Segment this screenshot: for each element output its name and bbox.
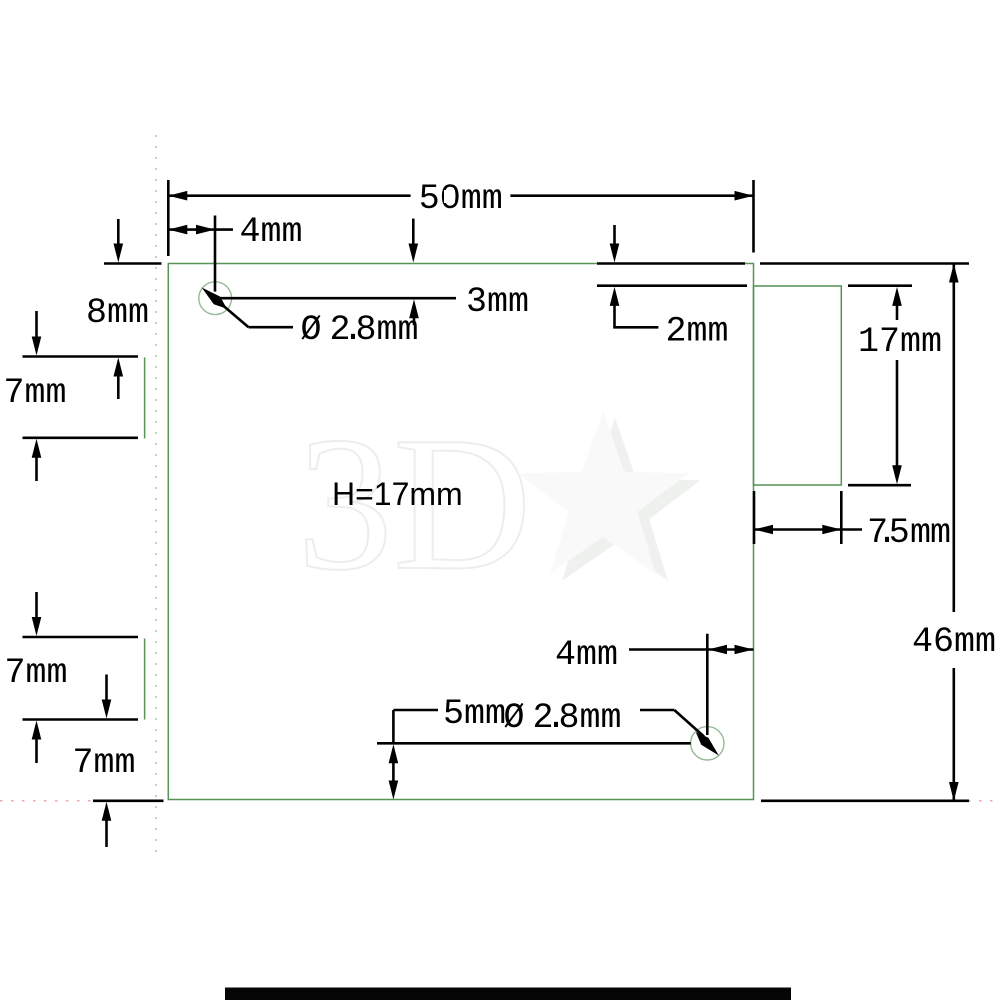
part outline left tab lower — [144, 639, 146, 720]
extension line hole bottom vertical — [706, 634, 709, 735]
svg-text:H=17mm: H=17mm — [332, 476, 463, 512]
left dim 7mm-1 arrow up — [32, 439, 42, 458]
svg-text:50mm: 50mm — [419, 179, 503, 219]
dimension 46mm line lower segment — [952, 668, 955, 801]
svg-text:4mm: 4mm — [240, 212, 303, 252]
mask dot inside zero glyph — [444, 190, 455, 203]
arrow 46mm up — [949, 264, 959, 283]
bottom edge extension black right — [761, 799, 969, 802]
leader 5mm vertical — [392, 710, 395, 743]
svg-text:3mm: 3mm — [466, 282, 529, 322]
arrow 50mm right — [735, 191, 754, 201]
dimension 4mm top line — [168, 228, 233, 231]
arrow 3mm down at top edge — [412, 219, 415, 247]
extension line hole top-left vertical — [214, 216, 217, 292]
left dim 7mm-1 arrow down — [35, 311, 38, 340]
svg-text:Ø2.8mm: Ø2.8mm — [301, 310, 419, 350]
dimension 50mm extension line right — [752, 180, 755, 253]
dimension 17mm extension bottom — [848, 484, 911, 487]
tab2 bottom reference line — [23, 718, 139, 721]
arrow 4mm bottom left — [708, 645, 727, 655]
arrow 3mm up at hole line — [409, 299, 419, 318]
dimension 5mm shaft — [392, 760, 395, 784]
arrow 2mm down at top edge — [613, 225, 616, 247]
dimension 50mm extension line left — [167, 180, 170, 256]
pocket top reference black line for 2mm dim — [597, 284, 747, 287]
arrow 4mm top left — [168, 225, 187, 235]
leader diameter 2.8mm bottom diagonal — [674, 710, 704, 737]
arrow 46mm down — [949, 782, 959, 801]
svg-text:46mm: 46mm — [912, 622, 996, 662]
dimension 50mm line left segment — [168, 194, 410, 197]
arrow 2mm up at pocket top — [610, 287, 620, 306]
left dim 7mm-2 arrow down — [35, 592, 38, 620]
svg-text:4mm: 4mm — [555, 635, 618, 675]
dimension 17mm arrow down — [896, 360, 899, 469]
left dim 8mm arrow down — [117, 219, 120, 247]
dimension 7.5mm extension left — [753, 491, 756, 544]
arrow 7.5mm right — [822, 525, 841, 535]
leader arrowhead into bottom hole — [696, 732, 719, 756]
bottom banner strip (transparent-black in source) — [225, 988, 791, 1000]
tab2 top reference line — [23, 636, 139, 639]
arrow 4mm top right — [196, 225, 215, 235]
watermark star back layer — [529, 418, 700, 581]
dimension 7.5mm extension right — [840, 491, 843, 544]
arrow 4mm bottom right — [735, 645, 754, 655]
svg-text:7mm: 7mm — [4, 373, 67, 413]
elbow 2mm label — [613, 326, 658, 329]
svg-text:5mm: 5mm — [443, 694, 506, 734]
svg-text:7mm: 7mm — [5, 653, 68, 693]
left dim 7mm-3 arrow down — [105, 675, 108, 704]
dimension 4mm bottom leader line — [629, 648, 707, 651]
dimension 7.5mm line — [754, 528, 862, 531]
dimension 50mm line right segment — [510, 194, 753, 197]
line 3mm label — [219, 297, 456, 300]
svg-text:7.5mm: 7.5mm — [867, 513, 951, 553]
watermark star front layer — [517, 411, 688, 574]
top edge extension black left — [104, 262, 162, 265]
hole line bottom 5mm reference — [377, 742, 691, 745]
dimension 17mm extension top — [848, 284, 912, 287]
centerline red dotted bottom-left — [0, 800, 91, 802]
leader line horizontal top — [249, 326, 293, 329]
top edge black segment for 2mm dim — [597, 262, 745, 265]
hole circle bottom-right — [691, 727, 724, 760]
centerline red dotted bottom-right — [968, 800, 1000, 802]
tab1 top reference line — [23, 355, 139, 358]
dimension 46mm line upper segment — [952, 264, 955, 613]
svg-text:17mm: 17mm — [858, 322, 942, 362]
left dim 7mm-3 arrow up — [102, 802, 112, 821]
arrow 50mm left — [168, 191, 187, 201]
left dim 7mm-2 arrow up — [32, 721, 42, 740]
part outline main body — [168, 264, 753, 800]
left dim 8mm arrow up — [114, 358, 124, 377]
tab1 bottom reference line — [23, 436, 139, 439]
arrow 7.5mm left — [754, 525, 773, 535]
top edge extension black right for 46mm — [760, 262, 969, 265]
dimension 17mm arrow up — [892, 287, 902, 306]
bottom edge extension black left — [93, 799, 164, 802]
part outline left tab upper — [144, 357, 146, 438]
centerline vertical green dotted — [155, 135, 157, 860]
leader diameter 2.8mm bottom horizontal — [640, 709, 674, 712]
svg-text:2mm: 2mm — [666, 312, 729, 352]
leader line diagonal top — [213, 297, 249, 327]
dimension 5mm arrow up — [389, 744, 399, 763]
part outline right pocket — [754, 286, 842, 485]
svg-text:Ø2.8mm: Ø2.8mm — [504, 698, 622, 738]
svg-text:8mm: 8mm — [86, 293, 149, 333]
dimension 5mm arrow down — [389, 781, 399, 800]
hole circle top-left — [199, 282, 232, 315]
dimension 4mm bottom line between arrows — [707, 648, 753, 651]
svg-text:7mm: 7mm — [73, 743, 136, 783]
leader 5mm label line — [393, 709, 438, 712]
leader diameter 2.8mm top: arrowhead into hole — [202, 288, 227, 309]
